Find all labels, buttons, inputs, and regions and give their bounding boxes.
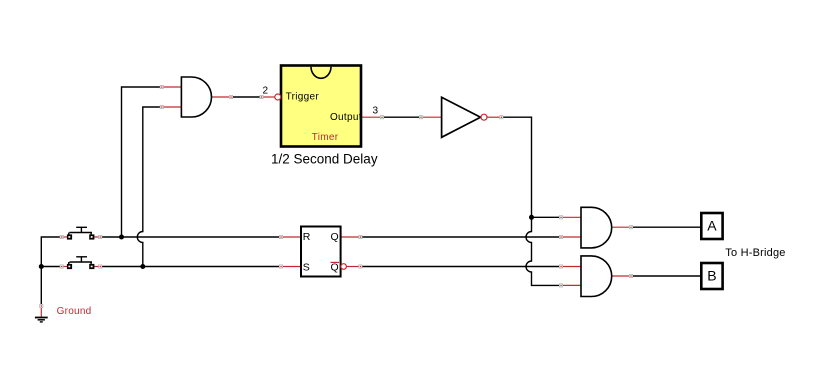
svg-text:Q: Q: [331, 231, 339, 243]
svg-text:B: B: [707, 268, 716, 284]
svg-text:2: 2: [263, 86, 269, 97]
svg-text:A: A: [707, 218, 717, 234]
svg-text:Q: Q: [331, 262, 339, 274]
svg-text:To H-Bridge: To H-Bridge: [725, 247, 785, 259]
svg-text:3: 3: [373, 106, 379, 117]
svg-text:S: S: [303, 262, 310, 274]
svg-text:Ground: Ground: [57, 306, 92, 317]
svg-text:Timer: Timer: [312, 132, 339, 143]
svg-text:Output: Output: [330, 112, 362, 123]
svg-text:R: R: [303, 231, 311, 243]
svg-text:1/2 Second Delay: 1/2 Second Delay: [271, 152, 378, 167]
svg-text:Trigger: Trigger: [286, 91, 320, 102]
